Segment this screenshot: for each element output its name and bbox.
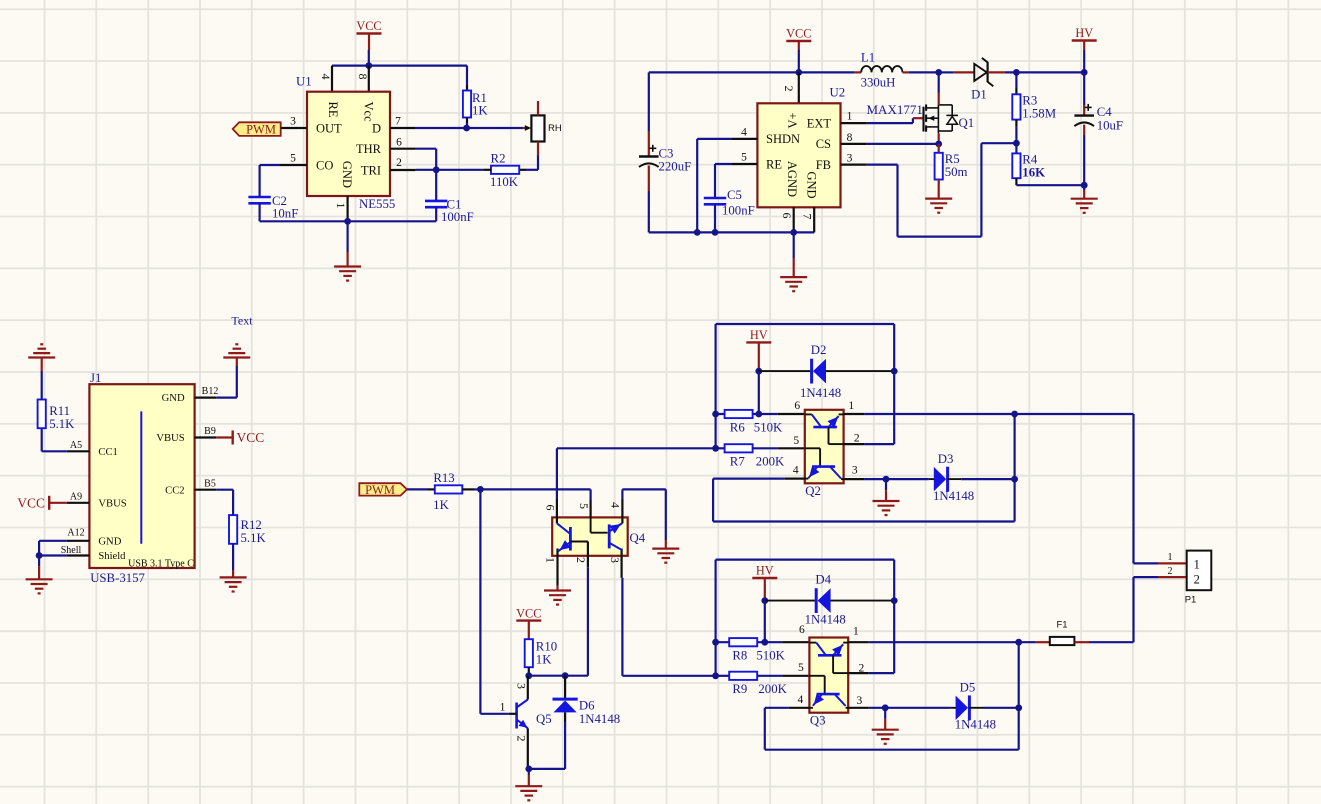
inductor L1 330uH	[854, 71, 861, 73]
optocoupler Q3 body	[809, 638, 848, 713]
diode D3 wire	[886, 478, 929, 480]
capacitor C3 220uF	[648, 72, 650, 131]
power VCC (A9)	[49, 502, 66, 504]
resistor R2	[519, 169, 526, 171]
wire CS to R5	[867, 143, 939, 145]
RH wiper arrow	[525, 125, 531, 131]
svg-text:1: 1	[1168, 552, 1173, 563]
svg-text:Shield: Shield	[98, 551, 126, 562]
svg-text:D: D	[372, 121, 381, 135]
svg-text:1N4148: 1N4148	[933, 489, 974, 503]
svg-text:CO: CO	[316, 158, 333, 172]
svg-text:A5: A5	[70, 440, 82, 451]
junction R10/collector	[525, 672, 532, 679]
diode D5 wire	[885, 707, 950, 709]
svg-text:1K: 1K	[472, 103, 488, 117]
svg-text:5: 5	[741, 151, 747, 163]
svg-text:1: 1	[1194, 557, 1200, 571]
svg-text:R3: R3	[1022, 93, 1037, 107]
junction HV/D4	[761, 597, 768, 604]
capacitor C4 10uF	[1083, 72, 1085, 105]
pin A9 VBUS	[67, 502, 90, 504]
pin 5 stub CO	[280, 164, 307, 166]
resistor R11	[41, 428, 43, 451]
junction pin1/gnd	[344, 218, 351, 225]
pin B12 GND	[195, 397, 217, 399]
Q2 lower transistor	[805, 447, 820, 449]
junction drain node	[935, 69, 942, 76]
wire VCC rail to pins 4/8 and R1	[332, 64, 467, 66]
capacitor C5	[704, 197, 726, 200]
svg-text:GND: GND	[340, 161, 354, 188]
svg-text:GND: GND	[98, 536, 121, 547]
junction Q5 emitter/gnd	[525, 766, 532, 773]
svg-text:D3: D3	[938, 452, 954, 466]
Q5 base stub	[509, 713, 517, 715]
pin 1 EXT stub	[841, 122, 867, 124]
pin A12 GND	[67, 540, 90, 542]
svg-text:R8: R8	[732, 649, 747, 663]
svg-text:3: 3	[852, 464, 858, 476]
svg-text:NE555: NE555	[359, 197, 395, 211]
svg-text:3: 3	[857, 695, 863, 707]
wire RH bottom to R2	[537, 156, 539, 170]
svg-text:3: 3	[608, 557, 622, 563]
Q3 upper transistor	[809, 642, 816, 644]
svg-text:HV: HV	[1075, 26, 1093, 40]
optocoupler Q2 body	[805, 410, 844, 484]
svg-text:AGND: AGND	[785, 161, 799, 197]
diode D4 1N4148	[765, 600, 816, 602]
wire gnd rail under U2	[649, 231, 814, 233]
wire SHDN	[697, 138, 732, 140]
junction R3/R4/FB	[1013, 140, 1020, 147]
svg-text:B5: B5	[204, 478, 216, 489]
svg-text:2: 2	[396, 157, 402, 169]
resistor R10 1K	[525, 639, 533, 667]
ground above R11	[41, 371, 43, 400]
svg-text:1.58M: 1.58M	[1022, 106, 1056, 120]
resistor R6 510K	[712, 411, 719, 418]
pin 2 stub TRI	[390, 169, 416, 171]
capacitor C1	[425, 200, 447, 203]
wire R10 to Q4 pin2 / D6	[529, 675, 588, 677]
junction pin6 gnd	[790, 229, 797, 236]
svg-text:VBUS: VBUS	[156, 433, 184, 444]
svg-text:THR: THR	[356, 142, 382, 156]
svg-text:Q1: Q1	[959, 116, 975, 130]
svg-text:C4: C4	[1097, 105, 1113, 119]
junction TRI/C1/R2	[433, 166, 440, 173]
Q4 pin 3	[620, 549, 622, 578]
ground (Q4 pin1)	[556, 586, 558, 591]
Q4 left transistor	[569, 527, 572, 551]
pin 6 stub	[793, 207, 795, 232]
svg-text:2: 2	[1194, 572, 1200, 586]
svg-text:1K: 1K	[433, 498, 449, 512]
resistor R8 510K	[712, 639, 719, 646]
svg-text:1N4148: 1N4148	[955, 718, 996, 732]
svg-text:Q3: Q3	[810, 714, 826, 728]
svg-text:1K: 1K	[536, 652, 552, 666]
svg-text:CC2: CC2	[165, 485, 184, 496]
optocoupler Q4 body	[552, 517, 628, 555]
svg-text:3: 3	[290, 115, 296, 127]
resistor R3	[1015, 72, 1017, 88]
junction D5 right	[1015, 704, 1022, 711]
svg-text:5.1K: 5.1K	[241, 531, 267, 545]
junction shield/gnd	[36, 552, 43, 559]
wire Q4 pin6 to R7 row	[557, 447, 716, 449]
ground (Q2)	[885, 479, 887, 490]
svg-text:J1: J1	[90, 371, 101, 385]
svg-text:6: 6	[799, 624, 805, 636]
resistor R13 1K	[407, 488, 428, 490]
svg-text:RE: RE	[766, 157, 782, 171]
svg-text:7: 7	[800, 214, 814, 220]
svg-text:1: 1	[848, 400, 854, 412]
resistor R5	[938, 144, 940, 153]
svg-text:SHDN: SHDN	[766, 132, 800, 146]
svg-text:2: 2	[1168, 566, 1173, 577]
pin 4 wire (Q2)	[784, 478, 805, 480]
svg-text:1N4148: 1N4148	[800, 386, 841, 400]
fuse F1	[1019, 641, 1035, 643]
ground (C4)	[1083, 185, 1085, 190]
svg-text:2: 2	[854, 432, 860, 444]
pin 1 stub	[347, 196, 349, 221]
junction HV/C4	[1081, 69, 1088, 76]
svg-text:110K: 110K	[490, 175, 519, 189]
svg-text:C5: C5	[727, 188, 742, 202]
svg-text:GND: GND	[804, 172, 818, 199]
svg-text:F1: F1	[1056, 620, 1067, 631]
wire R4 to gnd rail	[1016, 184, 1084, 186]
svg-text:D2: D2	[811, 343, 827, 357]
ground (R5)	[938, 190, 940, 199]
Q2 upper transistor	[805, 413, 812, 415]
svg-text:R4: R4	[1022, 152, 1038, 166]
svg-text:16K: 16K	[1022, 165, 1045, 179]
svg-text:R13: R13	[433, 471, 454, 485]
pin 5 RE stub	[732, 163, 757, 165]
junction D6 top	[562, 672, 569, 679]
junction pin3/gnd (Q3)	[882, 704, 889, 711]
resistor R4	[1015, 143, 1017, 153]
svg-text:D1: D1	[971, 87, 987, 101]
pin 7 stub	[813, 207, 815, 232]
junction D2 right	[891, 368, 898, 375]
svg-text:1: 1	[500, 702, 506, 714]
svg-text:8: 8	[356, 74, 370, 80]
svg-text:MAX1771: MAX1771	[867, 102, 923, 117]
IC U2 body MAX1771	[757, 103, 840, 207]
svg-text:10uF: 10uF	[1097, 118, 1123, 132]
svg-text:50m: 50m	[945, 165, 968, 179]
svg-text:6: 6	[543, 505, 557, 511]
svg-text:510K: 510K	[756, 649, 785, 663]
pin 2 stub V+	[798, 72, 800, 103]
wire GND rail under U1	[260, 220, 437, 222]
wire THR to TRI junction	[416, 148, 437, 150]
svg-text:200K: 200K	[758, 682, 787, 696]
port PWM (driver)	[359, 483, 407, 495]
svg-text:R6: R6	[730, 420, 746, 434]
potentiometer RH	[531, 115, 544, 141]
junction R6/HV	[755, 411, 762, 418]
junction pin3/gnd (Q2)	[883, 476, 890, 483]
svg-text:VCC: VCC	[356, 19, 381, 33]
Q4 pin 1	[556, 549, 558, 586]
resistor R1	[466, 66, 468, 85]
resistor R12	[232, 490, 234, 515]
svg-text:CC1: CC1	[98, 447, 117, 458]
Q5 collector pin	[527, 676, 529, 700]
svg-text:Q2: Q2	[805, 484, 821, 498]
svg-text:2: 2	[574, 557, 588, 563]
svg-text:4: 4	[741, 126, 747, 138]
svg-text:D4: D4	[815, 572, 831, 586]
wire to RH wiper	[467, 127, 523, 129]
pin 4 stub	[331, 66, 333, 92]
capacitor C2	[248, 196, 270, 199]
pin B9 VBUS	[195, 436, 217, 438]
pin 1 wire (Q2)	[844, 413, 865, 415]
wire top loop (Q2)	[716, 323, 895, 325]
svg-text:2: 2	[782, 86, 796, 92]
junction C4 bottom	[1081, 182, 1088, 189]
svg-text:220uF: 220uF	[659, 159, 692, 173]
svg-text:TRI: TRI	[361, 163, 381, 177]
svg-text:510K: 510K	[754, 420, 783, 434]
pin B5 CC2	[195, 489, 217, 491]
svg-text:6: 6	[396, 136, 402, 148]
diode D1	[974, 64, 987, 81]
junction R8/HV	[761, 639, 768, 646]
wire L1 to Q1 drain	[909, 71, 939, 73]
wire FB to divider	[867, 164, 898, 166]
svg-text:R11: R11	[49, 404, 70, 418]
junction R1 bottom	[463, 125, 470, 132]
wire drain to D1	[939, 71, 954, 73]
diode D5 1N4148	[968, 695, 971, 720]
svg-text:USB-3157: USB-3157	[90, 571, 145, 585]
svg-text:330uH: 330uH	[861, 75, 896, 89]
wire R13 down to Q5	[479, 489, 481, 713]
ground (shield)	[38, 556, 40, 567]
svg-text:EXT: EXT	[807, 116, 832, 130]
svg-text:OUT: OUT	[316, 121, 342, 135]
power VCC (B9)	[216, 436, 232, 438]
svg-text:CS: CS	[816, 137, 831, 151]
junction pin1 column (Q3)	[1015, 639, 1022, 646]
svg-text:7: 7	[395, 115, 401, 127]
svg-text:PWM: PWM	[365, 483, 395, 497]
svg-text:B9: B9	[204, 426, 216, 437]
svg-text:1N4148: 1N4148	[805, 613, 846, 627]
wire TRI junction to C1	[435, 170, 437, 201]
svg-text:6: 6	[780, 213, 794, 219]
ground (Q5)	[528, 769, 530, 775]
pin 8 CS stub	[841, 143, 867, 145]
junction VCC/pin2	[795, 69, 802, 76]
svg-text:1N4148: 1N4148	[579, 712, 620, 726]
ground (Q3)	[884, 708, 886, 719]
svg-text:5.1K: 5.1K	[49, 417, 75, 431]
Q4 right transistor	[608, 524, 611, 548]
wire Q4 pin3 to R9 row	[622, 675, 715, 677]
Q5 emitter pin	[527, 728, 529, 769]
svg-text:A12: A12	[67, 528, 84, 539]
Q1 pins red	[938, 72, 940, 92]
svg-text:HV: HV	[750, 328, 768, 342]
junction pin8/VCC	[365, 62, 372, 69]
diode D3 1N4148	[946, 467, 949, 492]
junction R3 top	[1013, 69, 1020, 76]
wire CO to C2	[260, 164, 280, 166]
pin 3 stub	[281, 127, 307, 129]
ground (R12)	[232, 570, 234, 577]
svg-text:Q5: Q5	[536, 712, 552, 726]
svg-text:R10: R10	[536, 639, 557, 653]
svg-text:VCC: VCC	[237, 430, 265, 445]
svg-text:5: 5	[290, 152, 296, 164]
wire D1 to R3 node	[988, 71, 1005, 73]
Q4 pin 6	[556, 448, 558, 499]
svg-text:USB 3.1 Type C: USB 3.1 Type C	[128, 559, 194, 570]
svg-text:VCC: VCC	[17, 495, 45, 510]
diode D2 1N4148	[759, 370, 812, 372]
svg-text:D5: D5	[960, 681, 976, 695]
pin 3 FB stub	[841, 164, 867, 166]
pin 4 SHDN stub	[732, 138, 757, 140]
transistor Q5	[515, 703, 518, 729]
transistor Q1 MOSFET	[922, 107, 924, 132]
svg-text:VCC: VCC	[786, 27, 811, 41]
wire EXT to Q1 gate	[867, 122, 913, 124]
svg-text:VCC: VCC	[516, 606, 541, 620]
junction CS/R5	[935, 141, 942, 148]
pin Shell Shield	[67, 554, 90, 556]
svg-text:C3: C3	[659, 146, 674, 160]
junction R13/Q5 base	[477, 486, 484, 493]
pin 3 wire (Q2)	[844, 478, 865, 480]
svg-text:100nF: 100nF	[722, 203, 755, 217]
junction D4 right	[891, 597, 898, 604]
pin 7 stub	[390, 127, 416, 129]
svg-text:1: 1	[543, 557, 557, 563]
svg-text:Vcc: Vcc	[361, 102, 375, 123]
svg-text:4: 4	[608, 502, 622, 508]
svg-text:PWM: PWM	[246, 122, 276, 136]
svg-text:6: 6	[794, 400, 800, 412]
svg-text:4: 4	[798, 694, 804, 706]
pin 2 wire (Q3)	[848, 672, 869, 674]
pin 4 wire (Q3)	[789, 707, 810, 709]
Q4 pin5 internal	[590, 517, 592, 532]
connector P1 body	[1187, 551, 1212, 591]
svg-text:10nF: 10nF	[272, 206, 298, 220]
wire top rail U2	[649, 71, 855, 73]
svg-text:P1: P1	[1185, 595, 1197, 606]
wire Q2 pin1 to P1	[1015, 413, 1134, 415]
svg-text:V+: V+	[786, 112, 800, 128]
svg-text:5: 5	[798, 662, 804, 674]
svg-text:R5: R5	[945, 152, 960, 166]
svg-text:Shell: Shell	[61, 545, 82, 556]
svg-text:1: 1	[334, 203, 348, 209]
svg-text:5: 5	[793, 435, 799, 447]
wire top loop (Q3)	[716, 558, 895, 560]
ground (U1)	[347, 221, 349, 252]
svg-text:1: 1	[853, 626, 859, 638]
svg-text:GND: GND	[162, 393, 185, 404]
connector J1 body USB-3157	[89, 384, 194, 568]
svg-text:R2: R2	[491, 151, 506, 165]
pin 1 wire (Q3)	[848, 641, 869, 643]
svg-text:B12: B12	[202, 386, 219, 397]
Q4 pin 4	[621, 489, 623, 499]
svg-text:R7: R7	[730, 455, 746, 469]
ground (Q4 pin4)	[665, 489, 667, 540]
wire pin7 to R1/RH	[416, 127, 467, 129]
svg-text:RE: RE	[326, 102, 340, 118]
svg-text:200K: 200K	[756, 455, 785, 469]
svg-text:R9: R9	[732, 682, 747, 696]
svg-text:2: 2	[514, 736, 528, 742]
wire RE to C5	[715, 163, 732, 165]
Q3 lower transistor	[809, 675, 824, 677]
svg-text:FB: FB	[816, 158, 831, 172]
svg-text:A9: A9	[70, 491, 82, 502]
junction C5 rail	[712, 229, 719, 236]
svg-text:4: 4	[319, 74, 333, 80]
svg-text:8: 8	[847, 132, 853, 144]
Q4 pin2 internal	[570, 541, 588, 543]
svg-text:Text: Text	[231, 314, 253, 328]
junction HV/D2	[755, 368, 762, 375]
pin 2 wire (Q2)	[844, 443, 865, 445]
svg-text:HV: HV	[756, 564, 774, 578]
wire B12 up to gnd	[236, 366, 238, 398]
svg-text:L1: L1	[861, 50, 875, 64]
svg-text:3: 3	[514, 683, 528, 689]
svg-text:VBUS: VBUS	[98, 498, 126, 509]
pin 6 stub THR	[390, 148, 416, 150]
pin A5 CC1	[67, 450, 90, 452]
pin 8 stub	[368, 66, 370, 92]
junction pin1 column (Q2)	[1011, 411, 1018, 418]
svg-text:3: 3	[847, 152, 853, 164]
svg-text:U1: U1	[296, 74, 312, 88]
svg-text:5: 5	[577, 503, 591, 509]
op-amp U1 body NE555	[307, 92, 390, 196]
svg-text:100nF: 100nF	[441, 210, 474, 224]
svg-text:Q4: Q4	[630, 531, 646, 545]
svg-text:1: 1	[847, 110, 853, 122]
svg-text:D6: D6	[579, 698, 595, 712]
wire F1 to P1 pin2	[1089, 641, 1134, 643]
wire R13 to Q4 pin5	[480, 488, 590, 490]
svg-text:U2: U2	[830, 85, 846, 99]
diode D6 1N4148	[564, 676, 566, 699]
wire Q4 pin4 to gnd	[622, 488, 665, 490]
pin 3 wire (Q3)	[848, 707, 869, 709]
resistor R9 200K	[712, 672, 719, 679]
port PWM (left)	[233, 122, 281, 136]
ground (U2)	[793, 232, 795, 258]
internal divider line	[140, 411, 142, 543]
